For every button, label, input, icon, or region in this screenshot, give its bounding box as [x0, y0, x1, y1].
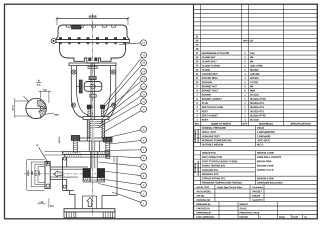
svg-text:10: 10 — [196, 81, 199, 84]
svg-text:DATE APPROVED: DATE APPROVED — [196, 216, 214, 219]
svg-text:3.1MPa(WATER): 3.1MPa(WATER) — [257, 131, 275, 134]
svg-text:1: 1 — [244, 106, 246, 109]
svg-text:13: 13 — [196, 69, 199, 72]
svg-text:12: 12 — [196, 73, 199, 76]
svg-text:PRESSURE-TEMPERATURE RATINGS: PRESSURE-TEMPERATURE RATINGS — [202, 181, 242, 184]
svg-text:B8M: B8M — [250, 89, 255, 92]
svg-text:PROP./TOTAL PAGE: PROP./TOTAL PAGE — [239, 212, 259, 215]
svg-text:16: 16 — [196, 56, 199, 59]
svg-text:18: 18 — [196, 48, 199, 51]
svg-text:STROKE RATING STD.: STROKE RATING STD. — [202, 177, 226, 180]
svg-text:LEAKAGE STD.: LEAKAGE STD. — [202, 169, 219, 172]
svg-text:GLAND NUT: GLAND NUT — [202, 56, 216, 59]
svg-text:1: 1 — [244, 94, 246, 97]
svg-text:6: 6 — [196, 98, 198, 101]
svg-text:4: 4 — [143, 174, 145, 178]
svg-text:DRAWING NO.: DRAWING NO. — [196, 199, 211, 202]
svg-text:SUS316: SUS316 — [250, 69, 259, 72]
svg-text:MULTI-HOLE CAGE: MULTI-HOLE CAGE — [202, 106, 224, 109]
svg-text:Φ7.73: Φ7.73 — [12, 104, 15, 110]
svg-text:1/16: 1/16 — [250, 52, 255, 55]
svg-text:A: A — [36, 143, 38, 147]
svg-text:3: 3 — [196, 110, 198, 113]
svg-text:VALVE TYPE: VALVE TYPE — [196, 186, 209, 189]
svg-text:15: 15 — [196, 60, 199, 63]
svg-text:9: 9 — [143, 127, 145, 131]
svg-text:3:1: 3:1 — [37, 83, 41, 87]
svg-text:PERFORMANCE: PERFORMANCE — [194, 128, 197, 143]
svg-text:SUS316+STL: SUS316+STL — [250, 110, 265, 113]
svg-text:TECHNICAL: TECHNICAL — [194, 162, 197, 173]
svg-text:SUITABLE MEDIUM: SUITABLE MEDIUM — [202, 143, 223, 146]
svg-text:1: 1 — [244, 102, 246, 105]
svg-text:BONNET NUT: BONNET NUT — [202, 85, 218, 88]
svg-text:GLAND FLANGE: GLAND FLANGE — [202, 64, 221, 67]
svg-text:EDITION: EDITION — [239, 217, 248, 219]
svg-text:1.1MPa(AIR): 1.1MPa(AIR) — [257, 135, 271, 138]
svg-text:15: 15 — [142, 61, 145, 65]
svg-text:Φ92: Φ92 — [31, 171, 34, 174]
svg-text:4-Φ17.5: 4-Φ17.5 — [58, 137, 61, 144]
svg-text:150LB: 150LB — [257, 127, 264, 130]
svg-text:2: 2 — [143, 192, 145, 196]
svg-text:19: 19 — [196, 44, 199, 47]
svg-text:2: 2 — [244, 56, 246, 59]
svg-text:A194 8M: A194 8M — [250, 73, 259, 76]
svg-text:8: 8 — [143, 138, 145, 142]
svg-text:NO.: NO. — [195, 123, 200, 126]
svg-text:SPECIFICATIONS: SPECIFICATIONS — [291, 123, 311, 126]
svg-text:DN=1 1/2″: DN=1 1/2″ — [243, 39, 255, 42]
svg-text:A: A — [38, 78, 40, 82]
svg-text:EN/5.56-73NA: EN/5.56-73NA — [257, 160, 272, 163]
svg-text:8M: 8M — [250, 60, 253, 63]
svg-text:Angle Type Control Valve: Angle Type Control Valve — [217, 186, 243, 189]
svg-text:8M: 8M — [250, 85, 253, 88]
svg-text:8: 8 — [196, 89, 198, 92]
svg-text:MATERIAL STD.: MATERIAL STD. — [202, 173, 219, 176]
svg-text:1: 1 — [244, 98, 246, 101]
svg-text:1: 1 — [244, 77, 246, 80]
svg-text:NOMINAL PRESSURE: NOMINAL PRESSURE — [202, 127, 226, 130]
svg-text:FACE TO FACE (OR END TO END): FACE TO FACE (OR END TO END) — [202, 160, 238, 163]
svg-text:2: 2 — [196, 114, 198, 117]
svg-text:-29℃-425℃: -29℃-425℃ — [257, 139, 270, 142]
svg-text:NPS2: NPS2 — [39, 171, 41, 176]
svg-text:13: 13 — [142, 77, 145, 81]
svg-text:1: 1 — [143, 201, 145, 205]
svg-text:DESIGN STD.: DESIGN STD. — [202, 153, 216, 155]
svg-text:BODY: BODY — [202, 119, 209, 122]
svg-text:1: 1 — [244, 114, 246, 117]
svg-text:17: 17 — [196, 52, 199, 55]
svg-text:21: 21 — [196, 35, 199, 38]
svg-text:20: 20 — [196, 39, 199, 42]
svg-text:1: 1 — [244, 73, 246, 76]
svg-text:1: 1 — [244, 81, 246, 84]
svg-text:SCALE: SCALE — [239, 207, 247, 210]
svg-text:APPROVED BY: APPROVED BY — [196, 212, 212, 215]
svg-text:BONNET: BONNET — [202, 94, 212, 97]
svg-text:END CONNECTION: END CONNECTION — [202, 157, 222, 159]
svg-text:DIAPHRAGM ACTUATOR: DIAPHRAGM ACTUATOR — [202, 52, 230, 55]
svg-text:PACKING: PACKING — [202, 81, 213, 84]
svg-text:7: 7 — [196, 94, 198, 97]
svg-text:1: 1 — [196, 119, 198, 122]
svg-text:PLUG: PLUG — [202, 102, 209, 105]
svg-text:9: 9 — [143, 107, 145, 111]
svg-text:EN60534-1-2008: EN60534-1-2008 — [257, 152, 274, 155]
svg-text:DATE: DATE — [292, 216, 298, 219]
svg-text:4: 4 — [196, 106, 198, 109]
svg-text:NAME OF PARTS: NAME OF PARTS — [211, 123, 231, 126]
svg-text:8: 8 — [244, 85, 246, 88]
svg-text:M.E.G: M.E.G — [257, 143, 264, 146]
svg-text:2: 2 — [244, 60, 246, 63]
svg-text:SUS316: SUS316 — [250, 77, 259, 80]
svg-text:10: 10 — [142, 100, 145, 104]
svg-text:ANSI/ASME B16.34-2019: ANSI/ASME B16.34-2019 — [257, 181, 283, 184]
svg-text:SUS316+STL: SUS316+STL — [250, 106, 265, 109]
svg-text:V-PTFE: V-PTFE — [250, 81, 258, 84]
svg-text:A351 CF8M: A351 CF8M — [250, 64, 262, 67]
svg-text:ANSI/FCI 70-2 IV: ANSI/FCI 70-2 IV — [257, 169, 274, 172]
svg-text:3: 3 — [143, 183, 145, 187]
svg-text:SHELL TEST: SHELL TEST — [202, 131, 217, 134]
svg-text:30.2: 30.2 — [50, 206, 55, 208]
svg-text:GLAND: GLAND — [202, 69, 211, 72]
svg-text:GLAND BOLT: GLAND BOLT — [202, 60, 217, 63]
svg-text:1: 1 — [244, 64, 246, 67]
svg-text:1: 1 — [244, 119, 246, 122]
svg-text:HYDRO TESTING STD.: HYDRO TESTING STD. — [202, 165, 226, 167]
svg-text:1: 1 — [244, 69, 246, 72]
svg-text:14: 14 — [196, 64, 199, 67]
svg-text:6: 6 — [143, 156, 145, 160]
svg-text:Φ305: Φ305 — [89, 15, 97, 19]
svg-text:EN12266-1-2006: EN12266-1-2006 — [257, 165, 274, 167]
svg-text:R0.8: R0.8 — [54, 114, 59, 116]
svg-text:SEAT: SEAT — [202, 110, 209, 113]
svg-text:8M: 8M — [250, 56, 253, 59]
svg-text:SCS13A: SCS13A — [250, 94, 259, 97]
svg-text:ASME B16.5 -150LB RF: ASME B16.5 -150LB RF — [257, 156, 282, 159]
svg-text:SUS316+PTFE: SUS316+PTFE — [250, 114, 266, 117]
svg-text:QTY: QTY — [243, 123, 248, 126]
svg-text:1: 1 — [244, 52, 246, 55]
svg-text:SUS316+STL: SUS316+STL — [250, 102, 265, 105]
svg-text:SPACER RING: SPACER RING — [202, 77, 218, 80]
svg-text:PAGE: PAGE — [279, 216, 285, 219]
svg-text:17: 17 — [142, 41, 145, 45]
svg-text:WORKING TEMPERATURE: WORKING TEMPERATURE — [202, 139, 232, 142]
svg-text:LOCKING NUT: LOCKING NUT — [202, 73, 219, 76]
svg-text:LEAKAGE TEST: LEAKAGE TEST — [202, 135, 220, 138]
svg-text:Φ77.75: Φ77.75 — [35, 170, 38, 176]
svg-text:SCS13A: SCS13A — [250, 119, 259, 122]
svg-text:SEAT GASKET: SEAT GASKET — [202, 114, 219, 117]
svg-text:11: 11 — [196, 77, 199, 80]
svg-text:5: 5 — [143, 165, 145, 169]
svg-text:Contractor: Contractor — [252, 186, 263, 189]
svg-text:SPECIFICATION: SPECIFICATION — [197, 129, 200, 143]
svg-text:16: 16 — [142, 53, 145, 57]
svg-text:12: 12 — [142, 85, 145, 89]
svg-text:REQUIREMENTS: REQUIREMENTS — [198, 160, 200, 175]
svg-text:SUS316+PTFE: SUS316+PTFE — [250, 98, 266, 101]
svg-text:11: 11 — [142, 92, 145, 96]
svg-text:BONNET BOLT: BONNET BOLT — [202, 89, 219, 92]
svg-text:VALVE MODEL: VALVE MODEL — [196, 190, 212, 193]
svg-text:7: 7 — [143, 148, 145, 152]
svg-text:MATERIALS: MATERIALS — [259, 123, 273, 126]
svg-text:1: 1 — [244, 110, 246, 113]
svg-text:BONNET GASKET: BONNET GASKET — [202, 98, 223, 101]
svg-text:9: 9 — [196, 85, 198, 88]
svg-text:8: 8 — [244, 89, 246, 92]
svg-text:QUANTITY: QUANTITY — [252, 199, 263, 202]
svg-text:14: 14 — [142, 70, 145, 74]
svg-text:EN60534-4-2006: EN60534-4-2006 — [257, 177, 274, 180]
svg-text:5: 5 — [196, 102, 198, 105]
svg-text:Φ139.7: Φ139.7 — [27, 170, 30, 176]
